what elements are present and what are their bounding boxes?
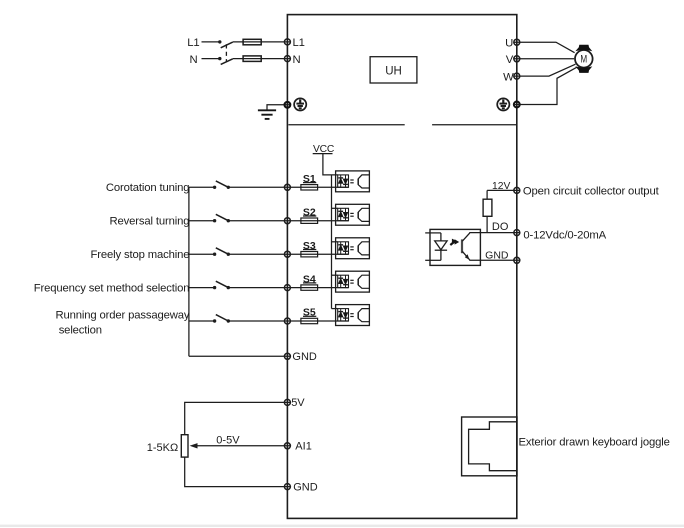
resistor S1 body: [301, 185, 318, 190]
resistor S2 label underline: [303, 215, 316, 217]
optocoupler U3 box: [336, 238, 370, 259]
terminal S4: [284, 285, 290, 291]
inverter main block UH outline: [287, 15, 516, 519]
potentiometer RP1 body: [181, 435, 188, 457]
wire VCC stub to U4: [332, 274, 338, 276]
svg-text:L1: L1: [187, 37, 199, 49]
optocoupler U4 LED up diode: [338, 275, 343, 287]
optocoupler U6 box: [430, 229, 480, 265]
wire SW3 to opto: [228, 253, 348, 255]
svg-text:M: M: [580, 54, 587, 66]
wire bus stub S5: [189, 320, 215, 322]
svg-text:GND: GND: [292, 351, 317, 363]
terminal S2: [284, 218, 290, 224]
terminal GND analog: [284, 484, 290, 490]
wire pot bottom to GND: [185, 457, 291, 487]
resistor S3 label underline: [303, 249, 316, 251]
switch SW4 blade: [216, 281, 229, 287]
wire VCC stub to U3: [332, 241, 338, 243]
resistor S5 label underline: [303, 315, 316, 317]
terminal 12V: [514, 187, 520, 193]
optocoupler U4 LED inner box: [338, 275, 349, 287]
wire V to motor: [514, 58, 575, 60]
svg-text:DO: DO: [492, 221, 509, 233]
resistor S5 body: [301, 318, 318, 323]
switch SW5 right contact dot: [227, 319, 230, 322]
terminal S5: [284, 318, 290, 324]
UH box U0: [370, 57, 417, 83]
earth ground symbol left: [258, 110, 276, 119]
optocoupler U5 box: [336, 305, 370, 326]
optocoupler U6 light arrow: [450, 239, 459, 245]
wire VCC drop: [323, 154, 338, 175]
wire bus stub S1: [189, 186, 215, 188]
optocoupler U3 LED inner box: [338, 242, 349, 254]
optocoupler U2 LED down diode: [343, 208, 348, 220]
switch S-L1 left contact dot: [218, 40, 221, 43]
internal divider line right segment: [432, 124, 517, 126]
svg-text:V: V: [506, 54, 514, 66]
resistor S1 label underline: [303, 182, 316, 184]
svg-text:N: N: [293, 54, 301, 66]
optocoupler U6 phototransistor: [462, 233, 470, 260]
wire bus to GND terminal: [189, 355, 291, 357]
switch S-N blade: [221, 59, 233, 65]
switch SW4 left contact dot: [213, 286, 216, 289]
resistor S3 body: [301, 252, 318, 257]
wire bus stub S4: [189, 287, 215, 289]
motor M circle: [575, 50, 593, 68]
switch SW3 left contact dot: [213, 253, 216, 256]
resistor S4 label underline: [303, 282, 316, 284]
svg-text:Reversal turning: Reversal turning: [110, 215, 190, 227]
wire PE terminal to earth: [267, 105, 291, 111]
switch SW2 blade: [216, 214, 229, 220]
svg-text:0-5V: 0-5V: [216, 435, 240, 447]
optocoupler U2 LED up diode: [338, 208, 343, 220]
switch S-L1 blade: [221, 42, 233, 48]
optocoupler U4 phototransistor: [358, 275, 369, 288]
wire SW4 to opto: [228, 287, 348, 289]
optocoupler U4 LED down diode: [343, 275, 348, 287]
optocoupler U5 LED up diode: [338, 309, 343, 321]
svg-text:Frequency set method selection: Frequency set method selection: [34, 282, 190, 294]
optocoupler U3 phototransistor: [358, 242, 369, 255]
svg-text:Corotation tuning: Corotation tuning: [106, 182, 190, 194]
optocoupler U1 phototransistor: [358, 175, 369, 188]
internal divider line left segment: [288, 124, 404, 126]
resistor S2 body: [301, 218, 318, 223]
wire left switch bus vertical: [188, 187, 190, 356]
keyboard jack J1 socket profile: [469, 422, 517, 471]
optocoupler U5 phototransistor: [358, 309, 369, 322]
optocoupler U5 LED down diode: [343, 309, 348, 321]
terminal V: [514, 56, 520, 62]
wire L1 label to switch: [202, 41, 220, 43]
optocoupler U1 coupling dashes: [350, 180, 353, 183]
optocoupler U2 box: [336, 204, 370, 225]
svg-text:N: N: [189, 54, 197, 66]
wire switch to fuse F1: [233, 41, 291, 43]
svg-text:5V: 5V: [291, 397, 305, 409]
wire bus stub S2: [189, 220, 215, 222]
wire N label to switch: [202, 58, 220, 60]
switch S-N left contact dot: [218, 57, 221, 60]
optocoupler U2 coupling dashes: [350, 213, 353, 216]
terminal GND right: [514, 257, 520, 263]
optocoupler U3 coupling dashes: [350, 247, 353, 250]
optocoupler U4 coupling dashes: [350, 280, 353, 283]
switch SW3 blade: [216, 248, 229, 254]
optocoupler U6 LED: [435, 233, 447, 260]
wire resistor R1 to DO: [486, 216, 488, 232]
wire 12V to resistor R1: [486, 190, 488, 199]
fuse F2: [243, 56, 261, 62]
optocoupler U2 phototransistor: [358, 208, 369, 221]
fuse F1: [243, 39, 261, 45]
svg-text:selection: selection: [59, 324, 102, 336]
wire VCC bus vertical: [331, 175, 333, 309]
switch SW1 right contact dot: [227, 186, 230, 189]
terminal W: [514, 73, 520, 79]
svg-text:GND: GND: [485, 249, 509, 261]
terminal N: [284, 56, 290, 62]
wire DO to terminal: [469, 232, 520, 234]
wire 5V to pot top: [185, 402, 291, 434]
terminal PE left: [285, 102, 291, 108]
switch SW5 blade: [216, 315, 229, 321]
wire opto emitter to GND terminal: [469, 259, 520, 261]
optocoupler U1 box: [336, 171, 370, 192]
resistor S4 body: [301, 285, 318, 290]
svg-text:AI1: AI1: [295, 441, 312, 453]
wire W to motor: [514, 64, 576, 76]
protective earth circled symbol right: [497, 98, 509, 110]
scan artifact band at bottom: [0, 525, 684, 527]
svg-text:UH: UH: [385, 65, 402, 77]
wire switch to fuse F2: [233, 58, 291, 60]
optocoupler U6 anode stub: [425, 232, 441, 234]
switch SW3 right contact dot: [227, 253, 230, 256]
optocoupler U3 LED up diode: [338, 242, 343, 254]
wire 12V to terminal: [487, 189, 520, 191]
switch SW5 left contact dot: [213, 319, 216, 322]
svg-text:GND: GND: [293, 481, 318, 493]
resistor R1 body: [483, 199, 492, 216]
optocoupler U4 box: [336, 271, 370, 292]
terminal S3: [284, 251, 290, 257]
protective earth circled symbol left: [294, 98, 306, 110]
wire VCC stub to U2: [332, 207, 338, 209]
wire U to motor: [514, 42, 575, 53]
wire PE right to motor: [514, 67, 577, 104]
terminal L1: [284, 39, 290, 45]
wiper arrow head: [190, 443, 198, 448]
terminal DO: [514, 230, 520, 236]
svg-text:L1: L1: [293, 37, 305, 49]
wire SW2 to opto: [228, 220, 348, 222]
wire VCC stub to U5: [332, 308, 338, 310]
wire SW5 to opto: [228, 320, 348, 322]
switch SW1 blade: [216, 181, 229, 187]
VCC underline: [313, 153, 333, 155]
ganged switch dashed link: [225, 44, 227, 62]
svg-text:1-5KΩ: 1-5KΩ: [147, 442, 178, 454]
switch SW4 right contact dot: [227, 286, 230, 289]
keyboard jack J1 outer: [462, 417, 517, 476]
optocoupler U2 LED inner box: [338, 208, 349, 220]
optocoupler U3 LED down diode: [343, 242, 348, 254]
optocoupler U1 LED down diode: [343, 175, 348, 187]
switch SW2 left contact dot: [213, 219, 216, 222]
optocoupler U5 LED inner box: [338, 309, 349, 321]
motor bottom crescent: [575, 66, 592, 73]
terminal 5V: [284, 399, 290, 405]
terminal U: [514, 39, 520, 45]
switch SW1 left contact dot: [213, 186, 216, 189]
optocoupler U1 LED inner box: [338, 175, 349, 187]
optocoupler U5 coupling dashes: [350, 314, 353, 317]
wire AI1 wiper: [197, 445, 291, 447]
svg-text:Running order passageway: Running order passageway: [55, 309, 189, 321]
svg-text:0-12Vdc/0-20mA: 0-12Vdc/0-20mA: [523, 229, 606, 241]
svg-text:U: U: [505, 37, 513, 49]
optocoupler U6 cathode stub: [425, 259, 441, 261]
svg-text:W: W: [503, 71, 514, 83]
svg-text:Exterior drawn keyboard joggle: Exterior drawn keyboard joggle: [519, 436, 670, 448]
terminal PE right: [514, 102, 520, 108]
svg-text:Open circuit collector output: Open circuit collector output: [523, 185, 660, 197]
terminal S1: [284, 184, 290, 190]
wire SW1 to opto: [228, 186, 348, 188]
switch SW2 right contact dot: [227, 219, 230, 222]
svg-text:Freely stop machine: Freely stop machine: [91, 249, 190, 261]
motor top crescent: [575, 45, 592, 52]
terminal GND digital: [284, 353, 290, 359]
optocoupler U1 LED up diode: [338, 175, 343, 187]
terminal AI1: [284, 443, 290, 449]
wire bus stub S3: [189, 253, 215, 255]
